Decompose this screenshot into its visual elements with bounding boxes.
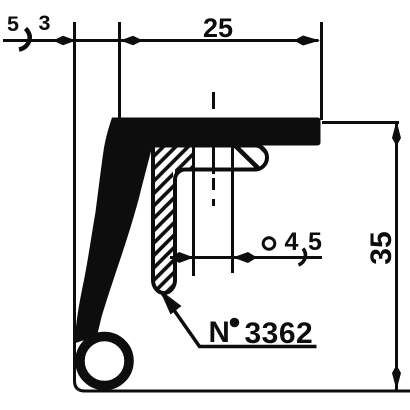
svg-text:35: 35	[365, 231, 398, 264]
bulb ring of seal	[80, 337, 129, 386]
arrowhead pointing right at x=76	[53, 36, 76, 45]
comma of 5,3	[19, 29, 30, 50]
comma of 4,5	[299, 249, 306, 266]
hole centerline (dash-dot)	[212, 92, 215, 206]
arrowhead pointing left at x=120	[120, 36, 143, 45]
leader line to part number	[162, 293, 317, 347]
leader arrowhead pointing at insert tip	[160, 290, 182, 315]
insert cross-hatch fill	[155, 145, 193, 293]
extension line left	[118, 22, 121, 118]
panel outline (vertical line into rounded corner and bottom baseline)	[75, 22, 410, 391]
insert outline (vertical strip + horizontal flange)	[153, 146, 267, 294]
extension line right	[320, 22, 323, 120]
insert cross-hatch line right of hole	[236, 146, 259, 168]
svg-text:25: 25	[203, 13, 233, 43]
degree mark of N°	[230, 318, 240, 328]
svg-text:5: 5	[308, 228, 322, 256]
hole diameter dimension line	[170, 256, 322, 259]
hole wall extension lines	[194, 145, 233, 276]
arrowhead pointing up	[392, 121, 401, 146]
extension line to 35 dimension	[322, 121, 399, 124]
svg-text:3362: 3362	[245, 317, 314, 350]
arrowhead pointing left at x=233	[233, 252, 257, 263]
svg-text:5: 5	[7, 12, 19, 36]
svg-text:3: 3	[39, 11, 51, 35]
arrowhead pointing down	[392, 365, 401, 390]
arrowhead pointing right at x=320	[294, 36, 320, 46]
svg-text:N: N	[209, 316, 230, 349]
diameter symbol o	[263, 238, 275, 250]
small hatch fleck at flange tip	[260, 147, 266, 153]
35 dimension line	[395, 121, 398, 390]
arrowhead pointing right at x=194	[171, 252, 194, 263]
seal body: solid top bar with slanted lip band	[76, 118, 321, 344]
top dimension line	[3, 39, 319, 42]
svg-text:4: 4	[285, 228, 299, 256]
